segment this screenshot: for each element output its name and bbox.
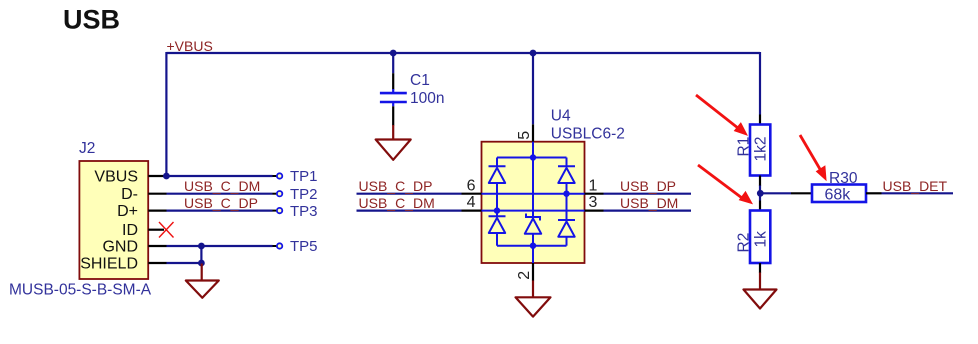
pin 3 stub [585, 210, 604, 212]
net label USB_DET [883, 178, 948, 194]
pin stub ID [148, 229, 164, 231]
svg-text:1: 1 [589, 177, 598, 194]
pin 2 stub [532, 263, 534, 281]
wire junction to R2 [759, 193, 761, 200]
svg-text:C1: C1 [410, 72, 430, 89]
svg-text:D-: D- [121, 186, 138, 203]
svg-text:USB_C_DM: USB_C_DM [359, 195, 435, 211]
ground C1 [376, 125, 411, 160]
svg-text:VBUS: VBUS [94, 169, 138, 186]
wire R1 to junction [759, 186, 761, 194]
svg-text:5: 5 [516, 131, 533, 140]
junction R1 R2 R30 [757, 190, 764, 197]
junction U4 pin5 on rail [530, 50, 537, 57]
svg-text:TP5: TP5 [290, 238, 318, 255]
pin 5 number [516, 131, 533, 140]
pin 6 number [467, 177, 476, 194]
svg-text:6: 6 [467, 177, 476, 194]
svg-text:USB_C_DP: USB_C_DP [359, 178, 433, 194]
net label USB_DM [620, 195, 678, 211]
net label USB_C_DP (J2 side) [184, 195, 258, 211]
wire U4 right lower [604, 210, 692, 212]
svg-text:USB_DET: USB_DET [883, 178, 948, 194]
pin GND name [102, 239, 138, 256]
pin SHIELD name [80, 255, 138, 272]
resistor R2 [750, 201, 770, 274]
value 100n [410, 90, 444, 107]
pin D- name [121, 186, 138, 203]
junction D-left IO2 [494, 207, 500, 213]
testpoint TP5 [273, 238, 318, 255]
svg-text:USB: USB [63, 5, 120, 35]
svg-text:MUSB-05-S-B-SM-A: MUSB-05-S-B-SM-A [9, 282, 152, 299]
pin 4 number [467, 194, 476, 211]
svg-text:1k2: 1k2 [753, 137, 770, 162]
capacitor C1 [380, 73, 407, 125]
junction D-right IO1 [563, 191, 569, 197]
wire U4 right upper [604, 193, 692, 195]
pin stub D- [148, 193, 166, 195]
svg-text:SHIELD: SHIELD [80, 255, 138, 272]
zener DZ center [525, 214, 541, 246]
diode D-upper-left [489, 158, 506, 211]
svg-text:100n: 100n [410, 90, 444, 107]
diode D-lower-left [489, 211, 506, 246]
svg-text:4: 4 [467, 194, 476, 211]
title USB [63, 5, 120, 35]
U4 center vertical [532, 142, 534, 263]
net label USB_C_DP (U4 left) [359, 178, 433, 194]
svg-text:+VBUS: +VBUS [167, 38, 213, 54]
wire U4 left lower [357, 210, 462, 212]
wire U4 pin5 drop [532, 53, 534, 124]
value 1k2 [753, 137, 770, 162]
pin ID name [122, 222, 138, 239]
pin 4 stub [462, 210, 482, 212]
designator J2 [79, 140, 95, 157]
junction J2 VBUS [163, 173, 170, 180]
svg-text:U4: U4 [551, 107, 571, 124]
pin stub SHIELD [148, 262, 166, 264]
wire C1 drop [392, 53, 394, 73]
pin stub VBUS [148, 175, 166, 177]
wire left drop to J2 VBUS [165, 52, 167, 176]
svg-text:J2: J2 [79, 140, 95, 157]
testpoint TP1 [273, 168, 318, 185]
svg-text:R30: R30 [829, 170, 858, 187]
diode D-lower-right [558, 194, 575, 246]
value 1k [753, 231, 770, 248]
svg-text:D+: D+ [117, 203, 138, 220]
wire +VBUS rail [167, 52, 761, 54]
annotation arrow at R30 [800, 135, 826, 180]
wire R30 to USB_DET [882, 192, 954, 194]
ground U4 [516, 281, 551, 317]
wire D+ to TP3 [167, 210, 273, 212]
ground J2 [186, 264, 219, 298]
designator R1 [736, 137, 753, 157]
resistor R1 [750, 115, 770, 187]
testpoint TP2 [273, 186, 318, 203]
svg-text:68k: 68k [825, 186, 852, 203]
svg-text:USB_DP: USB_DP [620, 178, 676, 194]
U4 bottom rail [497, 245, 567, 247]
wire SHIELD [167, 262, 202, 264]
svg-text:USB_C_DP: USB_C_DP [184, 195, 258, 211]
value MUSB-05-S-B-SM-A [9, 282, 152, 299]
junction C1 on rail [390, 50, 397, 57]
value 68k [825, 186, 852, 203]
testpoint TP3 [273, 203, 318, 220]
annotation arrow at R2 [698, 165, 752, 204]
svg-text:R2: R2 [736, 233, 753, 253]
junction GND [198, 243, 205, 250]
ground R2 [744, 273, 777, 309]
pin 3 number [589, 194, 598, 211]
pin 1 stub [585, 193, 604, 195]
svg-text:1k: 1k [753, 231, 770, 248]
pin stub D+ [148, 210, 166, 212]
pin 2 number [516, 271, 533, 280]
wire U4 left upper [357, 193, 462, 195]
pin stub GND [148, 245, 166, 247]
svg-text:USBLC6-2: USBLC6-2 [551, 126, 625, 143]
svg-text:R1: R1 [736, 137, 753, 157]
pin 5 stub [532, 124, 534, 141]
pin VBUS name [94, 169, 138, 186]
net label USB_C_DM (J2 side) [184, 178, 260, 194]
value USBLC6-2 [551, 126, 625, 143]
wire junction to R30 [760, 192, 791, 194]
svg-text:ID: ID [122, 222, 138, 239]
svg-text:USB_DM: USB_DM [620, 195, 678, 211]
svg-text:TP1: TP1 [290, 168, 318, 185]
designator U4 [551, 107, 571, 124]
annotation arrow at R1 [696, 95, 747, 135]
U4 top rail [497, 157, 567, 159]
no-connect X on ID [159, 222, 174, 238]
diode D-upper-right [558, 158, 575, 194]
pin D+ name [117, 203, 138, 220]
U4 internal line IO1 [482, 193, 585, 195]
ic U4 body [482, 142, 585, 263]
wire VBUS to TP1 [166, 175, 272, 177]
junction SHIELD [198, 260, 205, 267]
pin 1 number [589, 177, 598, 194]
resistor R30 [791, 185, 882, 203]
connector J2 body [79, 161, 148, 279]
svg-text:GND: GND [102, 239, 138, 256]
svg-text:3: 3 [589, 194, 598, 211]
net label USB_DP [620, 178, 676, 194]
designator R30 [829, 170, 858, 187]
power net label +VBUS [167, 38, 213, 54]
U4 junction top rail [530, 154, 536, 160]
svg-text:TP2: TP2 [290, 186, 318, 203]
pin 6 stub [462, 193, 482, 195]
svg-text:2: 2 [516, 271, 533, 280]
svg-text:TP3: TP3 [290, 203, 318, 220]
U4 internal line IO2 [482, 210, 585, 212]
wire D- to TP2 [167, 193, 273, 195]
designator C1 [410, 72, 430, 89]
net label USB_C_DM (U4 left) [359, 195, 435, 211]
wire GND-SHIELD vertical [200, 246, 202, 264]
wire R1 top drop [759, 52, 761, 115]
svg-text:USB_C_DM: USB_C_DM [184, 178, 260, 194]
designator R2 [736, 233, 753, 253]
wire GND to TP5 [167, 245, 273, 247]
U4 junction bottom rail [530, 243, 536, 249]
